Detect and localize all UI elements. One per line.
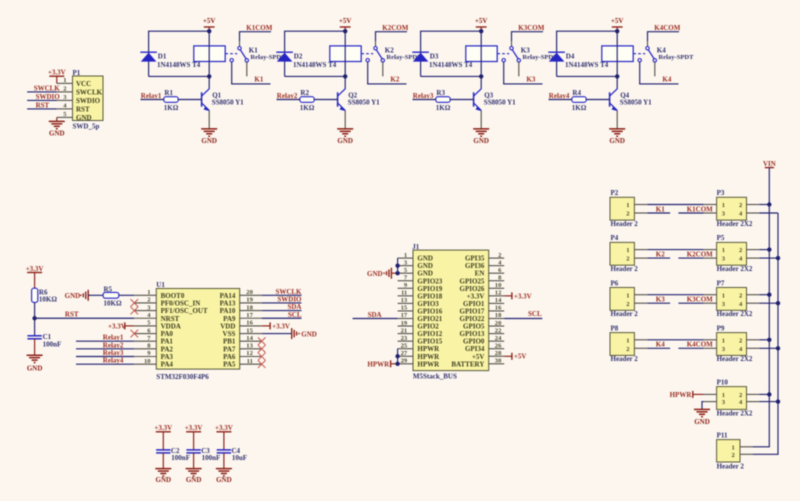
connector P7 Header 2X2 [704,279,760,318]
svg-text:14: 14 [246,335,253,342]
wire C2 to ground [162,453,164,469]
svg-text:P4: P4 [611,234,619,242]
diode D3 1N4148WS T4 [412,52,472,69]
wire P4 pin 1 to P5 pin 1 [647,249,703,251]
wire net K2 (switch NC contact) [368,62,407,84]
svg-text:Relay3: Relay3 [413,92,434,100]
resistor R4 1K [572,89,587,112]
wire P9 pin 4 to second bus [760,347,779,349]
net label K1COM (header) [687,205,713,213]
ground (J1 pins 1,3,5) [367,268,391,279]
relay switch K1 Relay-SPDT [225,41,286,76]
power +3.3V (P1) [48,69,66,84]
junction VIN bus row P9 [767,338,771,342]
svg-text:18: 18 [495,312,502,319]
svg-text:SWCLK: SWCLK [76,88,103,96]
svg-text:+5V: +5V [514,353,527,361]
svg-text:SCL: SCL [528,310,542,318]
wire J1 GND pins 1,3,5 [391,258,397,273]
wire net K3COM [512,32,544,41]
svg-text:K4: K4 [656,341,665,349]
svg-text:1: 1 [147,289,150,296]
net label Relay4 (U1) [103,357,124,365]
wire P9 pin 2 to VIN bus [760,339,770,341]
wire net SWDIO (U1) [262,302,302,304]
ground (P1 pin 5) [49,117,65,137]
svg-text:R4: R4 [572,89,581,97]
wire ground to R5 [88,294,103,296]
svg-text:K4COM: K4COM [654,24,680,32]
svg-text:1: 1 [626,247,629,254]
wire net K1 (P2 pin 2) [647,212,670,214]
wire net K1COM [240,32,272,41]
wire net Relay4 to R4 [549,99,572,101]
svg-text:+3.3V: +3.3V [26,265,44,273]
transistor Q1 SS8050 Y1 [202,89,245,129]
connector P1 SWD_5p [57,69,103,131]
wire second bus [753,213,778,454]
svg-text:1: 1 [626,202,629,209]
wire +5V node to diode D1 and coil K1 [149,31,210,76]
svg-text:SWD_5p: SWD_5p [73,123,100,131]
wire VIN bus [753,168,769,447]
ground (C2) [155,469,171,484]
svg-text:10KΩ: 10KΩ [39,296,57,304]
wire P5 pin 2 to VIN bus [760,249,770,251]
svg-text:19: 19 [246,297,253,304]
resistor R6 10K [32,288,58,303]
svg-text:+5V: +5V [203,17,216,25]
net label K4COM [654,24,680,32]
svg-text:1KΩ: 1KΩ [572,104,587,112]
svg-text:PA4: PA4 [161,361,174,369]
svg-text:25: 25 [401,342,408,349]
svg-text:STM32F030F4P6: STM32F030F4P6 [156,373,209,381]
svg-text:Header 2X2: Header 2X2 [717,310,753,318]
wire net Relay3 to R3 [413,99,436,101]
resistor R3 1K [436,89,451,112]
wire +5V node to diode D3 and coil K3 [421,31,482,76]
svg-text:SDA: SDA [368,311,382,319]
wire coil K3 to collector node [480,62,482,77]
no-ERC mark U1 pin 2 [131,299,139,307]
wire net K4 (switch NC contact) [640,62,679,84]
connector J1 M5Stack_BUS [398,243,505,381]
ground (U1 VSS pin 15) [262,328,317,339]
svg-text:23: 23 [401,335,408,342]
wire R6 to RST node and C1 [34,302,36,335]
svg-text:10: 10 [144,358,151,365]
svg-text:+3.3V: +3.3V [272,322,290,330]
junction second bus row P7 [776,301,780,305]
svg-text:R5: R5 [104,285,113,293]
svg-text:D3: D3 [430,52,439,60]
wire P3 pin 2 to VIN bus [760,204,770,206]
net label K4 (header) [656,341,665,349]
net label Relay4 [549,92,570,100]
svg-text:K1COM: K1COM [246,24,272,32]
svg-text:GND: GND [65,292,81,300]
ground (P10 pin 3) [694,409,710,425]
net label K2COM (header) [687,250,713,258]
wire net K4 (P8 pin 2) [647,347,670,349]
junction J1 pin 5 [395,271,399,275]
junction +5V node (relay 1) [207,29,211,33]
power +5V (relay 3) [475,17,488,31]
svg-text:+3.3V: +3.3V [514,292,532,300]
wire net SWCLK (P1 pin 2) [27,91,57,93]
power VIN [763,160,776,168]
wire coil K1 to collector node [208,62,210,77]
net label K2 [390,75,399,83]
svg-text:1KΩ: 1KΩ [300,104,315,112]
wire collector node (relay 1) [149,76,210,89]
wire C1 to ground [34,339,36,355]
wire R5 to U1 BOOT0 [119,294,135,296]
svg-text:K4COM: K4COM [687,341,713,349]
wire coil K2 to collector node [344,62,346,77]
svg-text:GND: GND [473,137,489,145]
junction second bus row P5 [776,256,780,260]
svg-text:+3.3V: +3.3V [108,322,126,330]
svg-text:SS8050 Y1: SS8050 Y1 [212,98,244,106]
svg-text:100nF: 100nF [171,454,190,462]
net label K3COM [518,24,544,32]
svg-text:SS8050 Y1: SS8050 Y1 [348,98,380,106]
net label K1 [254,75,263,83]
svg-text:1N4148WS T4: 1N4148WS T4 [293,61,337,69]
net label Relay2 (U1) [103,341,124,349]
svg-text:SS8050 Y1: SS8050 Y1 [484,98,516,106]
svg-text:HPWR: HPWR [670,391,693,399]
ground (BOOT0 pull-down) [65,290,89,301]
svg-text:K2: K2 [385,46,394,54]
svg-text:GND: GND [186,476,202,484]
svg-text:GND: GND [201,137,217,145]
wire net Relay4 (U1 pin 10) [76,363,134,365]
net label RST (P1) [36,101,50,109]
ground (emitter Q3) [473,129,489,145]
power +3.3V (U1 VDDA pin 5) [108,322,134,330]
connector P5 Header 2X2 [704,234,760,273]
no-ERC mark U1 pin 6 [131,330,139,338]
wire net K3 (switch NC contact) [504,62,543,84]
svg-text:11: 11 [247,358,253,365]
wire coil K4 to collector node [616,62,618,77]
svg-text:RST: RST [65,310,79,318]
net label Relay1 [141,92,162,100]
wire net K2COM (P5 pin 3) [678,257,703,259]
svg-text:12: 12 [246,350,253,357]
ground (emitter Q1) [201,129,217,145]
ground (C4) [216,469,232,484]
wire net SWCLK (U1) [262,294,302,296]
resistor R1 1K [164,89,179,112]
svg-text:P1: P1 [73,69,81,77]
svg-text:R2: R2 [300,89,309,97]
svg-text:1: 1 [626,337,629,344]
svg-text:100nF: 100nF [202,454,221,462]
svg-text:K3: K3 [656,296,665,304]
svg-text:+5V: +5V [611,17,624,25]
wire net Relay2 to R2 [277,99,300,101]
junction +5V node (relay 4) [615,29,619,33]
svg-text:GND: GND [216,476,232,484]
junction J1 pin 3 [395,263,399,267]
wire P10 pin 4 to second bus [760,401,779,403]
svg-text:1KΩ: 1KΩ [164,104,179,112]
wire collector node (relay 3) [421,76,482,89]
wire R2 to base Q2 [314,99,337,101]
svg-text:+3.3V: +3.3V [154,424,172,432]
connector P10 Header 2X2 [704,378,760,417]
svg-text:SWCLK: SWCLK [34,84,61,92]
wire P2 pin 1 to P3 pin 1 [647,204,703,206]
connector P4 Header 2 [610,234,647,273]
svg-text:15: 15 [401,305,408,312]
wire C3 to ground [193,453,195,469]
svg-text:GND: GND [367,270,383,278]
wire net SWDIO (P1 pin 3) [27,99,57,101]
relay coil K1 [194,46,225,62]
wire net K3 (P6 pin 2) [647,302,670,304]
wire P7 pin 4 to second bus [760,302,779,304]
relay switch K2 Relay-SPDT [361,41,422,76]
junction J1 pin 27 [395,354,399,358]
power +3.3V (C2) [154,424,172,450]
svg-text:+3.3V: +3.3V [215,424,233,432]
svg-text:P3: P3 [717,189,725,197]
svg-text:Header 2: Header 2 [611,310,639,318]
wire net Relay3 (U1 pin 9) [76,356,134,358]
svg-text:26: 26 [495,342,502,349]
svg-text:HPWR: HPWR [367,360,390,368]
svg-text:18: 18 [246,304,253,311]
wire net K2 (P4 pin 2) [647,257,670,259]
power HPWR (P10 pin 1) [670,391,704,399]
IC U1 STM32F030F4P6 [134,281,261,381]
junction RST node [32,316,36,320]
junction VIN bus row P3 [767,202,771,206]
svg-text:RST: RST [76,105,90,113]
no-ERC mark U1 pin 11 [258,360,266,368]
svg-text:P2: P2 [611,189,619,197]
junction VIN bus row P10 [767,392,771,396]
ground (C1) [27,355,43,372]
svg-text:P7: P7 [717,279,725,287]
power +5V (relay 4) [611,17,624,31]
wire net Relay1 (U1 pin 7) [76,340,134,342]
svg-text:Relay4: Relay4 [103,357,124,365]
power +3.3V (J1 pin 12) [504,292,531,300]
svg-text:Header 2X2: Header 2X2 [717,265,753,273]
svg-text:P6: P6 [611,279,619,287]
svg-text:K3: K3 [521,46,530,54]
svg-text:Header 2: Header 2 [611,265,639,273]
net label SCL (U1) [288,311,302,319]
svg-text:16: 16 [246,320,253,327]
net label K3COM (header) [687,296,713,304]
svg-text:1: 1 [722,202,725,209]
svg-text:K2: K2 [656,250,665,258]
net label RST [65,310,79,318]
wire +5V node to diode D2 and coil K2 [285,31,346,76]
svg-text:GND: GND [694,418,710,426]
svg-text:GND: GND [337,137,353,145]
net label SWCLK (U1) [275,288,302,296]
wire net K1COM (P3 pin 3) [678,212,703,214]
wire net SCL (J1 pin 18) [504,318,542,320]
svg-text:D1: D1 [158,52,167,60]
power +5V (J1 pin 28) [504,353,526,361]
net label K1 (header) [656,205,665,213]
svg-text:+3.3V: +3.3V [48,69,66,77]
connector P3 Header 2X2 [704,189,760,228]
ground (C3) [186,469,202,484]
svg-text:12: 12 [495,290,502,297]
svg-text:Relay2: Relay2 [277,92,298,100]
junction VIN bus row P7 [767,293,771,297]
svg-text:GND: GND [76,114,92,122]
net label Relay3 (U1) [103,349,124,357]
capacitor C1 100nF [27,333,61,348]
diode D1 1N4148WS T4 [140,52,200,69]
svg-text:1N4148WS T4: 1N4148WS T4 [565,61,609,69]
svg-text:24: 24 [495,335,502,342]
wire net K4COM (P9 pin 3) [678,347,703,349]
svg-text:13: 13 [246,343,253,350]
connector P6 Header 2 [610,279,647,318]
net label SWDIO (U1) [277,296,302,304]
net label Relay3 [413,92,434,100]
svg-text:17: 17 [401,312,408,319]
svg-text:SCL: SCL [288,311,302,319]
power +3.3V (C3) [185,424,203,450]
svg-text:GND: GND [49,130,65,138]
svg-text:Header 2: Header 2 [611,220,639,228]
relay coil K2 [330,46,361,62]
svg-text:21: 21 [401,327,408,334]
svg-text:14: 14 [495,297,502,304]
junction collector node (relay 1) [207,74,211,78]
net label SDA [368,311,382,319]
svg-text:Header 2X2: Header 2X2 [717,355,753,363]
svg-text:P8: P8 [611,324,619,332]
wire R4 to base Q4 [586,99,609,101]
resistor R5 10K [103,285,122,307]
svg-text:1: 1 [722,292,725,299]
svg-text:1N4148WS T4: 1N4148WS T4 [429,61,473,69]
svg-text:VCC: VCC [76,80,91,88]
wire net K3COM (P7 pin 3) [678,302,703,304]
svg-text:K3COM: K3COM [518,24,544,32]
svg-text:1: 1 [732,444,735,451]
ground (emitter Q2) [337,129,353,145]
svg-text:SWDIO: SWDIO [36,93,61,101]
transistor Q2 SS8050 Y1 [338,89,381,129]
svg-text:GND: GND [609,137,625,145]
power HPWR (J1) [367,360,390,368]
junction J1 pin 29 [395,362,399,366]
svg-text:1: 1 [722,247,725,254]
transistor Q4 SS8050 Y1 [610,89,653,129]
svg-text:M5Stack_BUS: M5Stack_BUS [413,372,457,380]
junction collector node (relay 3) [479,74,483,78]
svg-text:1: 1 [404,252,407,259]
net label SWCLK [34,84,61,92]
svg-text:R3: R3 [436,89,445,97]
svg-text:28: 28 [495,350,502,357]
svg-text:P11: P11 [717,431,728,439]
net label SCL (J1) [528,310,542,318]
relay coil K3 [466,46,497,62]
svg-text:D4: D4 [566,52,575,60]
wire R3 to base Q3 [450,99,473,101]
svg-text:P9: P9 [717,324,725,332]
no-ERC mark U1 pin 3 [131,307,139,315]
net label Relay2 [277,92,298,100]
wire P3 pin 4 to second bus [760,212,779,214]
svg-text:RST: RST [36,101,50,109]
svg-text:D2: D2 [294,52,303,60]
svg-text:HPWR: HPWR [417,360,440,368]
svg-text:17: 17 [246,312,253,319]
svg-text:P10: P10 [717,378,729,386]
connector P9 Header 2X2 [704,324,760,363]
svg-text:K1: K1 [254,75,263,83]
svg-text:Header 2X2: Header 2X2 [717,220,753,228]
diode D4 1N4148WS T4 [548,52,608,69]
svg-text:Header 2: Header 2 [717,462,745,470]
junction second bus row P9 [776,346,780,350]
wire net K2COM [376,32,408,41]
wire R1 to base Q1 [178,99,201,101]
wire net RST (P1 pin 4) [27,108,57,110]
junction second bus row P10 [776,399,780,403]
net label K4COM (header) [687,341,713,349]
capacitor C3 100nF [186,447,220,462]
ground (emitter Q4) [609,129,625,145]
wire net Relay2 (U1 pin 8) [76,348,134,350]
wire P5 pin 4 to second bus [760,257,779,259]
svg-text:K1: K1 [249,46,258,54]
relay switch K3 Relay-SPDT [497,41,558,76]
svg-text:+5V: +5V [475,17,488,25]
svg-text:K3: K3 [526,75,535,83]
svg-text:22: 22 [495,327,502,334]
junction collector node (relay 2) [343,74,347,78]
svg-text:1: 1 [722,392,725,399]
capacitor C2 100nF [156,447,190,462]
svg-text:K4: K4 [657,46,666,54]
net label K2 (header) [656,250,665,258]
net label K4 [662,75,671,83]
wire +5V node to diode D4 and coil K4 [557,31,618,76]
connector P11 Header 2 [717,431,753,470]
wire net RST to U1 NRST [35,317,135,319]
svg-text:10KΩ: 10KΩ [104,300,122,308]
wire P10 pin 3 to ground [702,402,704,410]
wire net SDA (J1 pin 17) [353,318,398,320]
svg-text:29: 29 [401,358,408,365]
net label Relay1 (U1) [103,334,124,342]
svg-text:K2COM: K2COM [687,250,713,258]
svg-text:1KΩ: 1KΩ [436,104,451,112]
svg-text:10: 10 [495,282,502,289]
relay coil K4 [602,46,633,62]
wire P8 pin 1 to P9 pin 1 [647,339,703,341]
connector P2 Header 2 [610,189,647,228]
